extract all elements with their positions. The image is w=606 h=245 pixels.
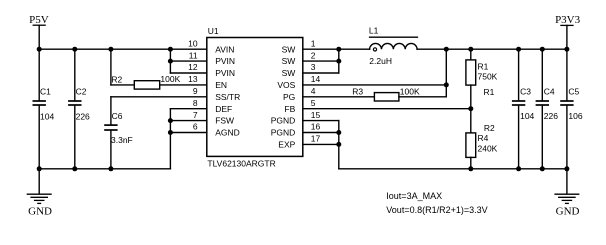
svg-text:750K: 750K <box>478 72 498 82</box>
svg-text:14: 14 <box>311 74 321 84</box>
svg-text:DEF: DEF <box>215 104 232 114</box>
wire FSW pin 7 <box>170 120 206 122</box>
svg-text:226: 226 <box>76 111 90 121</box>
svg-text:R2: R2 <box>111 75 122 85</box>
svg-text:10: 10 <box>188 38 198 48</box>
wire to PVIN pin 11 <box>170 60 206 62</box>
capacitor C3 <box>512 49 535 169</box>
capacitor C4 <box>536 49 559 169</box>
pin 9 SS/TR labels <box>193 86 240 102</box>
junction C3 top <box>516 47 521 52</box>
junction SW pin 2 <box>336 59 341 64</box>
pin 1 SW labels <box>282 38 316 54</box>
wire PGND pin 15 <box>303 120 339 122</box>
svg-text:104: 104 <box>40 111 54 121</box>
pin 11 PVIN labels <box>189 50 235 66</box>
svg-text:4: 4 <box>311 86 316 96</box>
wire P5V rail to AVIN pin 10 <box>39 48 207 50</box>
svg-text:AGND: AGND <box>215 128 240 138</box>
svg-text:100K: 100K <box>400 86 420 96</box>
svg-text:12: 12 <box>188 62 198 72</box>
wire VOS pin 14 <box>303 84 447 86</box>
wire to PVIN pin 12 <box>170 72 206 74</box>
svg-text:2.2uH: 2.2uH <box>369 56 392 66</box>
svg-text:C2: C2 <box>76 87 87 97</box>
junction C4 top <box>540 47 545 52</box>
inductor L1 <box>369 25 418 66</box>
svg-text:VOS: VOS <box>277 80 295 90</box>
ground GND right <box>554 169 579 218</box>
svg-text:106: 106 <box>568 111 582 121</box>
pin 14 VOS labels <box>277 74 320 90</box>
svg-text:EXP: EXP <box>278 140 295 150</box>
svg-text:16: 16 <box>311 122 321 132</box>
junction EXP pin 17 <box>336 142 341 147</box>
junction VOS <box>444 82 449 87</box>
pin 4 PG labels <box>283 86 316 102</box>
pin 7 FSW labels <box>193 110 234 126</box>
svg-text:C6: C6 <box>112 111 123 121</box>
junction SW pin 1 <box>336 47 341 52</box>
pin 5 FB labels <box>284 98 315 114</box>
resistor R4 <box>466 109 498 169</box>
junction C4 bottom <box>540 166 545 171</box>
svg-text:R4: R4 <box>478 133 489 143</box>
junction C5 / P3V3 <box>564 47 569 52</box>
pin 2 SW labels <box>282 50 316 66</box>
pin 15 PGND labels <box>271 110 321 126</box>
svg-text:Iout=3A_MAX: Iout=3A_MAX <box>386 191 442 201</box>
pin 13 EN labels <box>188 74 227 90</box>
svg-text:R3: R3 <box>352 86 363 96</box>
svg-text:8: 8 <box>193 98 198 108</box>
svg-text:FSW: FSW <box>215 116 234 126</box>
wire EXP pin 17 <box>303 143 339 145</box>
svg-text:P3V3: P3V3 <box>555 14 581 26</box>
svg-text:TLV62130ARGTR: TLV62130ARGTR <box>207 159 275 169</box>
wire AGND pin 6 <box>170 132 206 134</box>
svg-text:R2: R2 <box>484 123 495 133</box>
capacitor C5 <box>560 49 583 169</box>
svg-text:SW: SW <box>282 44 296 54</box>
svg-text:C3: C3 <box>520 87 531 97</box>
svg-text:SW: SW <box>282 56 296 66</box>
svg-text:SS/TR: SS/TR <box>215 92 240 102</box>
svg-text:6: 6 <box>193 122 198 132</box>
svg-text:U1: U1 <box>208 26 219 36</box>
svg-text:15: 15 <box>311 110 321 120</box>
svg-text:R1: R1 <box>484 87 495 97</box>
capacitor C6 <box>104 97 133 169</box>
power port P5V <box>29 14 49 49</box>
svg-text:3.3nF: 3.3nF <box>111 135 133 145</box>
svg-text:GND: GND <box>28 206 52 218</box>
svg-text:L1: L1 <box>369 25 379 35</box>
resistor R3 <box>303 86 447 101</box>
pin 10 AVIN labels <box>188 38 234 54</box>
wire SW pin 2 <box>303 60 339 62</box>
junction P5V / C1 <box>37 47 42 52</box>
svg-text:SW: SW <box>282 68 296 78</box>
junction FB divider node <box>468 106 473 111</box>
op-amp-style IC body U1 TLV62130ARGTR <box>207 38 303 157</box>
wire PVIN branch vertical <box>169 49 171 73</box>
junction C1 bottom / GND <box>37 166 42 171</box>
junction PGND pin 16 <box>336 130 341 135</box>
wire bottom-right GND rail <box>339 168 567 170</box>
junction C2 bottom <box>72 166 77 171</box>
junction C6 bottom <box>108 166 113 171</box>
junction C3 bottom <box>516 166 521 171</box>
junction C2 top <box>72 47 77 52</box>
pin 16 PGND labels <box>271 122 321 138</box>
ground GND left <box>27 169 52 218</box>
svg-text:PVIN: PVIN <box>215 68 235 78</box>
svg-text:240K: 240K <box>478 144 498 154</box>
wire bottom-left GND rail <box>39 168 170 170</box>
svg-text:100K: 100K <box>160 74 180 84</box>
pin 3 SW labels <box>282 62 316 78</box>
svg-text:7: 7 <box>193 110 198 120</box>
svg-text:PG: PG <box>283 92 295 102</box>
svg-text:2: 2 <box>311 50 316 60</box>
svg-text:3: 3 <box>311 62 316 72</box>
resistor R2 <box>111 49 207 89</box>
wire FB pin 5 <box>303 108 471 110</box>
wire SW bus vertical <box>338 49 340 73</box>
capacitor C2 <box>68 49 90 169</box>
pin 6 AGND labels <box>193 122 240 138</box>
junction VOS branch top <box>444 47 449 52</box>
wire L1 to P3V3 rail <box>417 48 567 50</box>
svg-text:C5: C5 <box>568 87 579 97</box>
junction C5 bottom / GND <box>564 166 569 171</box>
resistor R1 <box>466 49 498 108</box>
svg-text:C1: C1 <box>40 87 51 97</box>
wire SS/TR pin 9 <box>111 96 207 98</box>
junction R2 pull-up <box>108 47 113 52</box>
junction R4 bottom <box>468 166 473 171</box>
svg-text:EN: EN <box>215 80 227 90</box>
svg-text:13: 13 <box>188 74 198 84</box>
svg-text:1: 1 <box>311 38 316 48</box>
svg-text:AVIN: AVIN <box>215 44 234 54</box>
junction PVIN pin 11 <box>168 59 173 64</box>
capacitor C1 <box>33 49 55 169</box>
svg-text:104: 104 <box>520 111 534 121</box>
svg-text:GND: GND <box>556 206 580 218</box>
svg-text:PGND: PGND <box>271 128 296 138</box>
power port P3V3 <box>555 14 581 49</box>
svg-text:5: 5 <box>311 98 316 108</box>
svg-text:11: 11 <box>189 50 198 60</box>
svg-text:FB: FB <box>284 104 295 114</box>
wire SW pin 1 to L1 <box>303 48 370 50</box>
svg-text:17: 17 <box>311 134 321 144</box>
junction PVIN branch <box>168 47 173 52</box>
wire VOS branch vertical <box>445 49 447 97</box>
svg-text:226: 226 <box>544 111 558 121</box>
svg-text:PGND: PGND <box>271 116 296 126</box>
svg-text:Vout=0.8(R1/R2+1)=3.3V: Vout=0.8(R1/R2+1)=3.3V <box>386 205 487 215</box>
junction AGND pin 6 <box>168 130 173 135</box>
svg-text:P5V: P5V <box>29 14 49 26</box>
pin 12 PVIN labels <box>188 62 235 78</box>
svg-text:PVIN: PVIN <box>215 56 235 66</box>
svg-text:C4: C4 <box>544 87 555 97</box>
wire DEF pin 8 <box>170 108 206 110</box>
junction FSW pin 7 <box>168 118 173 123</box>
pin 8 DEF labels <box>193 98 232 114</box>
wire PGND pin 16 <box>303 132 339 134</box>
wire PGND bus vertical <box>338 121 340 169</box>
junction R1 top <box>468 47 473 52</box>
pin 17 EXP labels <box>278 134 320 150</box>
svg-text:9: 9 <box>193 86 198 96</box>
wire AGND bus vertical <box>169 109 171 169</box>
wire SW pin 3 <box>303 72 339 74</box>
svg-text:R1: R1 <box>478 61 489 71</box>
